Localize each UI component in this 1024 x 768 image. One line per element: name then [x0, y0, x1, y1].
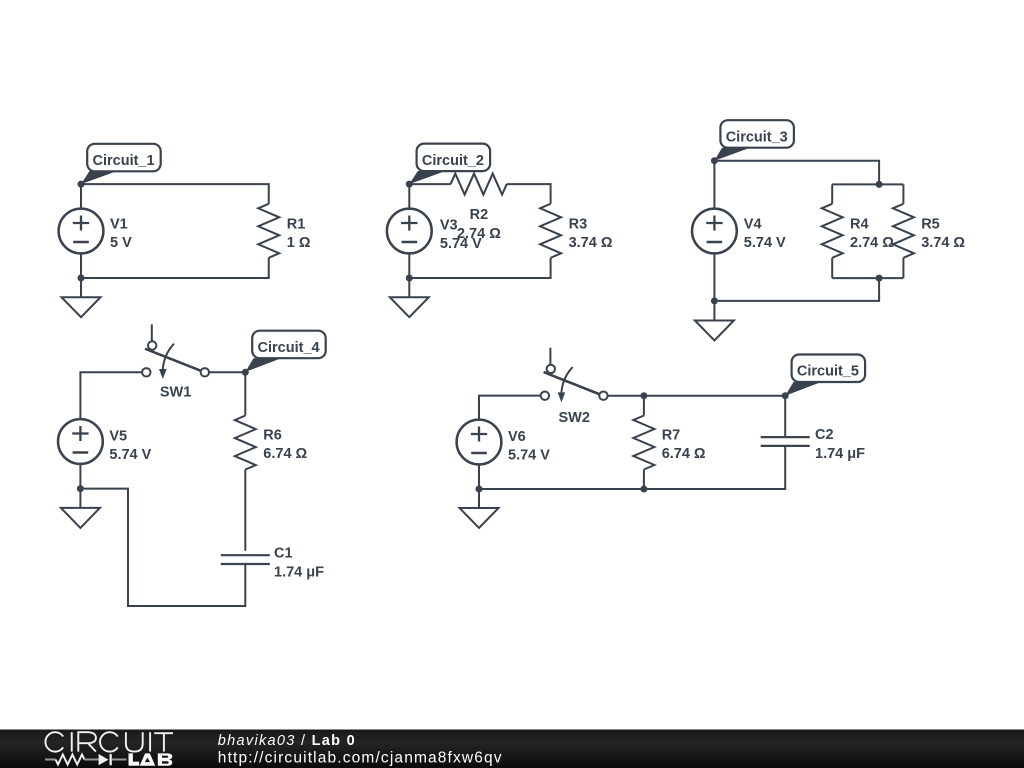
svg-text:1.74 μF: 1.74 μF	[815, 446, 865, 462]
wire top branch	[832, 183, 903, 185]
svg-text:Circuit_2: Circuit_2	[422, 153, 484, 169]
svg-text:5.74 V: 5.74 V	[109, 447, 151, 463]
ground	[695, 321, 734, 341]
svg-text:V6: V6	[508, 429, 526, 445]
switch SW2	[541, 348, 608, 403]
wire V1 bottom lead	[80, 254, 82, 298]
wire top left C2	[409, 183, 451, 185]
ground	[390, 297, 429, 317]
node R7 top	[640, 392, 647, 399]
resistor R7 leads	[643, 396, 645, 416]
svg-text:R4: R4	[850, 216, 869, 232]
label flag Circuit_2	[409, 144, 490, 185]
wire V6 bottom lead	[478, 465, 480, 509]
wire R6 to C1	[244, 470, 246, 551]
logo diode	[99, 754, 109, 765]
svg-text:6.74 Ω: 6.74 Ω	[662, 446, 706, 462]
wire V3 top lead	[408, 184, 410, 208]
svg-text:Circuit_1: Circuit_1	[93, 153, 155, 169]
svg-text:bhavika03 / Lab 0: bhavika03 / Lab 0	[218, 733, 356, 749]
logo zigzag	[56, 755, 85, 765]
svg-text:C1: C1	[274, 545, 293, 561]
wire C1 bottom loop	[80, 489, 245, 606]
svg-text:3.74 Ω: 3.74 Ω	[569, 235, 613, 251]
letter I	[149, 732, 151, 751]
svg-text:R7: R7	[662, 428, 681, 444]
svg-text:1.74 μF: 1.74 μF	[274, 564, 324, 580]
wire C2 bottom	[479, 446, 785, 489]
resistor R3	[540, 204, 561, 258]
logo CIRCUIT thin letters	[45, 732, 173, 751]
svg-text:V5: V5	[109, 429, 127, 445]
svg-text:http://circuitlab.com/cjanma8f: http://circuitlab.com/cjanma8fxw6qv	[218, 750, 503, 767]
capacitor C1	[221, 555, 270, 564]
node top	[406, 181, 413, 188]
wire bottom C3	[714, 278, 879, 301]
svg-text:V4: V4	[744, 217, 762, 233]
label flag Circuit_4	[245, 331, 325, 372]
letter I	[71, 732, 73, 751]
letter C	[100, 732, 118, 751]
logo LAB	[129, 753, 173, 765]
logo resistor zigzag wire	[45, 759, 56, 761]
svg-text:5.74 V: 5.74 V	[508, 448, 550, 464]
svg-text:Circuit_3: Circuit_3	[726, 129, 788, 145]
wire V1 top lead	[80, 184, 82, 208]
wire V4 bottom lead	[713, 254, 715, 321]
node bottom	[406, 275, 413, 282]
wire bottom C2	[409, 258, 550, 278]
wire top C3	[714, 161, 879, 185]
node R7 bottom	[640, 486, 647, 493]
wire switch to node R7	[608, 396, 786, 437]
wire top C1	[81, 184, 269, 204]
svg-text:2.74 Ω: 2.74 Ω	[850, 235, 894, 251]
ground	[62, 297, 101, 317]
voltage source V5	[58, 419, 103, 464]
wire V6 top to switch	[479, 396, 541, 420]
svg-text:1 Ω: 1 Ω	[287, 235, 311, 251]
wire V5 top to switch	[80, 372, 142, 419]
resistor R2	[451, 174, 507, 195]
wire bottom branch	[832, 277, 903, 279]
resistor R1	[258, 204, 279, 258]
svg-text:V1: V1	[110, 217, 128, 233]
letter R	[78, 732, 96, 751]
node bottom	[711, 297, 718, 304]
svg-text:C2: C2	[815, 427, 834, 443]
svg-text:R1: R1	[287, 216, 306, 232]
wire top right C2	[507, 184, 551, 204]
svg-text:Circuit_5: Circuit_5	[797, 364, 859, 380]
svg-text:Circuit_4: Circuit_4	[258, 340, 320, 356]
node bottom	[78, 275, 85, 282]
label flag Circuit_5	[785, 355, 865, 396]
svg-text:3.74 Ω: 3.74 Ω	[921, 235, 965, 251]
node C2 top	[782, 392, 789, 399]
ground	[460, 508, 499, 528]
node junction top	[876, 181, 883, 188]
node top	[711, 157, 718, 164]
wire V3 bottom lead	[408, 254, 410, 298]
svg-text:6.74 Ω: 6.74 Ω	[263, 446, 307, 462]
svg-text:2.74 Ω: 2.74 Ω	[457, 226, 501, 242]
voltage source V6	[457, 420, 502, 465]
resistor R6	[235, 416, 256, 470]
voltage source V4	[692, 209, 737, 254]
svg-text:SW2: SW2	[558, 410, 589, 426]
node bottom	[77, 485, 84, 492]
wire V4 top lead	[713, 161, 715, 209]
svg-text:SW1: SW1	[160, 385, 191, 401]
node junction bottom	[876, 275, 883, 282]
letter U	[126, 732, 143, 751]
logo wire to diode	[84, 759, 98, 761]
svg-text:R3: R3	[569, 216, 588, 232]
wire switch to node	[209, 372, 245, 415]
svg-text:V3: V3	[440, 218, 458, 234]
resistor R4	[831, 184, 833, 203]
svg-text:R5: R5	[921, 216, 940, 232]
label flag Circuit_3	[714, 120, 794, 161]
wire bottom C1	[81, 258, 269, 278]
svg-text:5.74 V: 5.74 V	[744, 235, 786, 251]
node A top	[78, 181, 85, 188]
capacitor C2	[761, 437, 810, 446]
svg-text:R6: R6	[263, 428, 282, 444]
voltage source V3	[387, 209, 432, 254]
ground	[61, 508, 100, 528]
wire V5 bottom lead	[79, 464, 81, 508]
resistor R7	[633, 416, 654, 470]
letter T	[154, 733, 173, 751]
voltage source V1	[59, 209, 104, 254]
resistor R5	[902, 184, 904, 203]
switch SW1	[142, 324, 209, 379]
label flag Circuit_1	[81, 144, 161, 184]
node top	[242, 369, 249, 376]
node V6 bottom	[476, 486, 483, 493]
svg-text:5 V: 5 V	[110, 235, 132, 251]
logo wire after diode	[112, 759, 127, 761]
letter C	[45, 732, 63, 751]
svg-text:R2: R2	[470, 207, 489, 223]
